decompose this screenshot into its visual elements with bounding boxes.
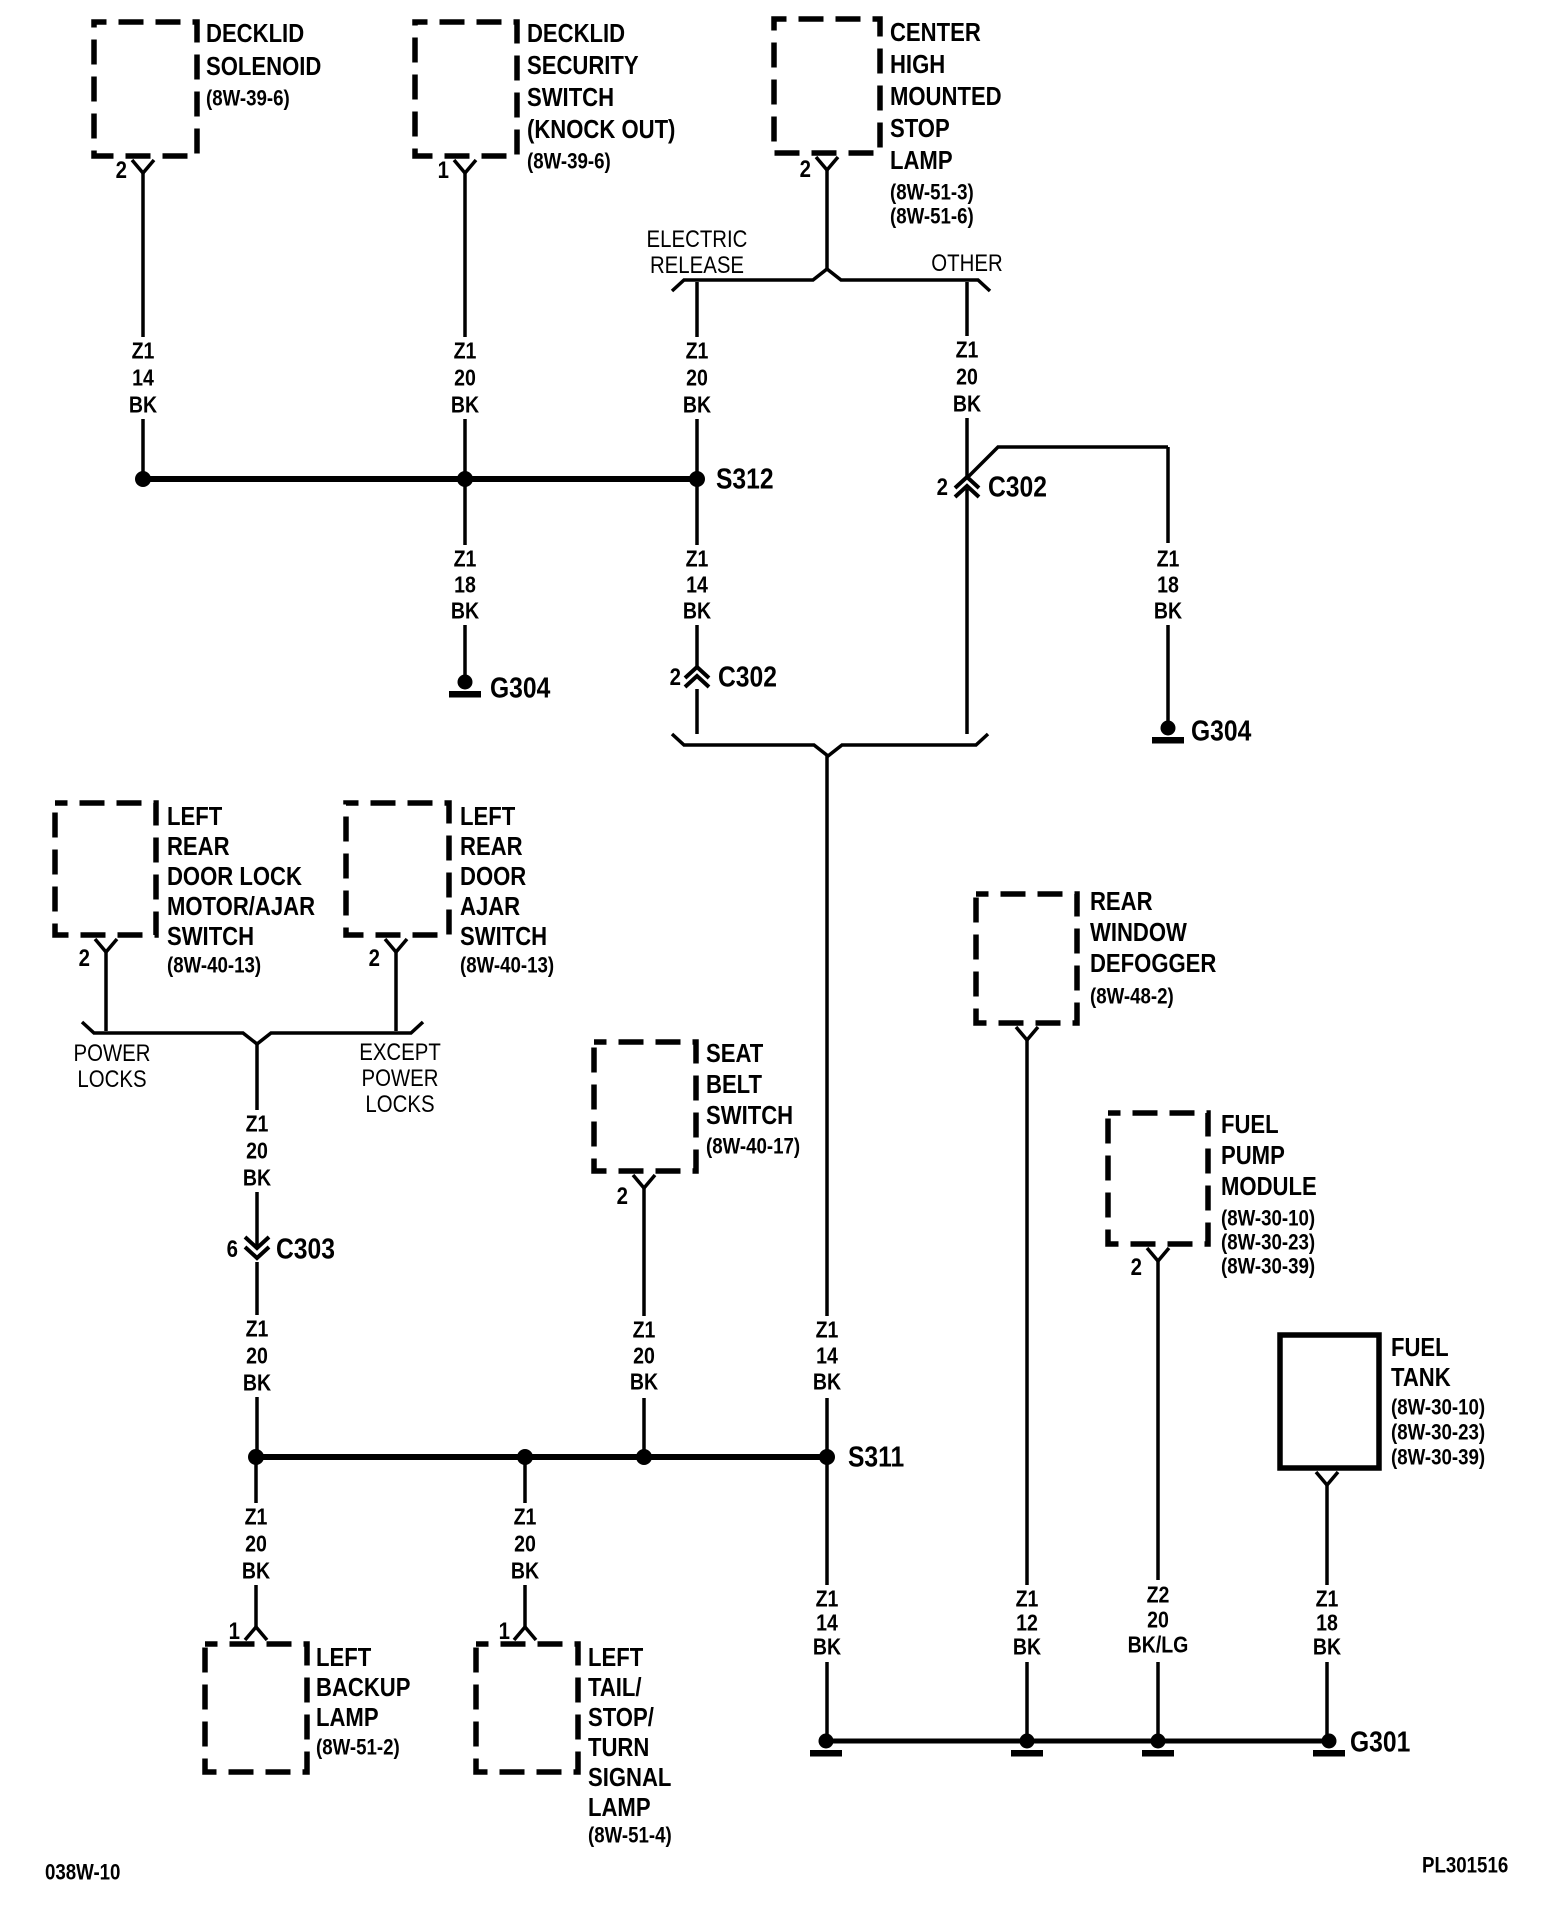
svg-text:TANK: TANK — [1391, 1363, 1451, 1392]
svg-text:(8W-51-6): (8W-51-6) — [890, 205, 974, 229]
svg-text:BK: BK — [243, 1370, 272, 1396]
svg-text:REAR: REAR — [167, 832, 230, 861]
svg-text:14: 14 — [816, 1610, 838, 1636]
svg-text:FUEL: FUEL — [1221, 1110, 1279, 1139]
svg-text:LEFT: LEFT — [167, 802, 222, 831]
svg-text:Z1: Z1 — [956, 337, 979, 363]
wire Z1 12 BK from defogger to ground bus — [1013, 1040, 1042, 1735]
wire from door ajar switch pin 2 to merge brace (EXCEPT POWER LOCKS) — [394, 952, 398, 1031]
svg-text:BK/LG: BK/LG — [1128, 1632, 1189, 1658]
wire Z1 20 BK from junction down to LEFT TAIL/STOP/TURN SIGNAL LAMP — [511, 1457, 540, 1627]
svg-text:Z1: Z1 — [246, 1111, 269, 1137]
svg-text:BK: BK — [1154, 598, 1183, 624]
wire jog from C302 upper to right branch — [967, 447, 1168, 478]
svg-text:2: 2 — [116, 157, 127, 184]
svg-text:Z1: Z1 — [816, 1317, 839, 1343]
svg-text:BK: BK — [630, 1369, 659, 1395]
svg-text:STOP/: STOP/ — [588, 1703, 654, 1732]
ground G304 (left) — [449, 672, 550, 704]
svg-text:Z2: Z2 — [1147, 1582, 1170, 1608]
svg-text:MOUNTED: MOUNTED — [890, 82, 1002, 111]
component LEFT TAIL/STOP/TURN SIGNAL LAMP (dashed box) — [476, 1643, 672, 1847]
svg-text:LEFT: LEFT — [588, 1643, 643, 1672]
svg-text:DEFOGGER: DEFOGGER — [1090, 949, 1216, 978]
svg-text:TAIL/: TAIL/ — [588, 1673, 642, 1702]
junction dot tail lamp branch — [517, 1449, 533, 1465]
svg-text:Z1: Z1 — [132, 338, 155, 364]
svg-text:038W-10: 038W-10 — [45, 1861, 120, 1885]
svg-text:LEFT: LEFT — [316, 1643, 371, 1672]
ground symbol below S311 wire — [810, 1734, 842, 1757]
svg-text:Z1: Z1 — [246, 1316, 269, 1342]
svg-text:18: 18 — [1157, 572, 1179, 598]
junction dot at DECKLID SECURITY SWITCH wire — [457, 471, 473, 487]
svg-text:14: 14 — [816, 1343, 838, 1369]
svg-text:BK: BK — [243, 1165, 272, 1191]
wire from door lock motor pin 2 to merge brace (POWER LOCKS) — [104, 952, 108, 1031]
junction dot seat belt branch — [636, 1449, 652, 1465]
component FUEL TANK (solid box) — [1280, 1333, 1485, 1469]
svg-text:DECKLID: DECKLID — [206, 19, 304, 48]
label OTHER — [931, 250, 1002, 277]
svg-text:Z1: Z1 — [686, 338, 709, 364]
svg-text:AJAR: AJAR — [460, 892, 520, 921]
svg-text:(8W-39-6): (8W-39-6) — [206, 87, 290, 111]
svg-text:Z1: Z1 — [1016, 1586, 1039, 1612]
svg-text:BK: BK — [129, 392, 158, 418]
svg-text:BACKUP: BACKUP — [316, 1673, 410, 1702]
svg-text:2: 2 — [800, 156, 811, 183]
wire Z2 20 BK/LG from fuel pump module to ground bus — [1128, 1261, 1189, 1735]
split brace ELECTRIC RELEASE / OTHER — [672, 269, 990, 291]
svg-text:BK: BK — [1013, 1634, 1042, 1660]
pin of FUEL TANK — [1316, 1472, 1338, 1485]
merge brace POWER LOCKS / EXCEPT POWER LOCKS — [82, 1022, 423, 1044]
label EXCEPT POWER LOCKS — [359, 1039, 441, 1118]
svg-text:BK: BK — [813, 1634, 842, 1660]
wire Z1 20 BK from merge brace to connector C303 — [243, 1044, 272, 1248]
footer sheet number 038W-10 — [45, 1861, 120, 1885]
wire Z1 20 BK from seat belt switch to junction row — [630, 1188, 659, 1457]
svg-text:C302: C302 — [988, 471, 1047, 503]
pin of REAR WINDOW DEFOGGER — [1016, 1027, 1038, 1040]
pin 1 of LEFT TAIL/STOP/TURN SIGNAL LAMP — [499, 1618, 536, 1645]
junction dot at DECKLID SOLENOID wire — [135, 471, 151, 487]
component LEFT BACKUP LAMP (dashed box) — [205, 1643, 410, 1772]
wire Z1 14 BK from S311 to ground bus — [813, 1457, 842, 1735]
component SEAT BELT SWITCH (dashed box) — [594, 1039, 800, 1171]
wire Z1 18 BK from fuel tank to ground G301 — [1313, 1485, 1342, 1735]
wire Z1 14 BK from S312 to connector C302 (lower) — [683, 479, 712, 667]
splice S311 — [819, 1441, 904, 1473]
svg-text:SWITCH: SWITCH — [706, 1101, 793, 1130]
connector C302 (upper, pin 2) on OTHER branch — [937, 471, 1047, 503]
svg-text:Z1: Z1 — [245, 1504, 268, 1530]
svg-text:SWITCH: SWITCH — [527, 83, 614, 112]
svg-text:(8W-30-23): (8W-30-23) — [1221, 1231, 1315, 1255]
svg-text:(KNOCK OUT): (KNOCK OUT) — [527, 115, 675, 144]
component DECKLID SECURITY SWITCH (dashed box) — [415, 19, 675, 173]
svg-text:DOOR: DOOR — [460, 862, 526, 891]
svg-text:(8W-30-23): (8W-30-23) — [1391, 1421, 1485, 1445]
svg-text:SIGNAL: SIGNAL — [588, 1763, 671, 1792]
svg-text:HIGH: HIGH — [890, 50, 945, 79]
svg-text:20: 20 — [245, 1531, 267, 1557]
pin 1 of LEFT BACKUP LAMP — [229, 1618, 267, 1645]
svg-text:1: 1 — [229, 1618, 240, 1645]
svg-text:SECURITY: SECURITY — [527, 51, 639, 80]
svg-text:REAR: REAR — [1090, 887, 1153, 916]
svg-text:SOLENOID: SOLENOID — [206, 52, 321, 81]
svg-text:MOTOR/AJAR: MOTOR/AJAR — [167, 892, 315, 921]
pin 2 of FUEL PUMP MODULE — [1131, 1248, 1169, 1280]
svg-text:BK: BK — [242, 1558, 271, 1584]
svg-text:LEFT: LEFT — [460, 802, 515, 831]
svg-text:PL301516: PL301516 — [1422, 1854, 1508, 1878]
component CENTER HIGH MOUNTED STOP LAMP (dashed box) — [774, 18, 1002, 228]
svg-text:Z1: Z1 — [454, 546, 477, 572]
svg-text:BK: BK — [683, 598, 712, 624]
svg-text:SEAT: SEAT — [706, 1039, 764, 1068]
pin 2 of LEFT REAR DOOR AJAR SWITCH — [369, 939, 407, 971]
svg-text:20: 20 — [246, 1138, 268, 1164]
svg-text:20: 20 — [454, 365, 476, 391]
svg-text:RELEASE: RELEASE — [650, 252, 744, 279]
svg-text:2: 2 — [79, 945, 90, 972]
svg-text:BK: BK — [813, 1369, 842, 1395]
svg-text:Z1: Z1 — [1316, 1586, 1339, 1612]
svg-text:BK: BK — [683, 392, 712, 418]
splice S312 bus — [143, 476, 697, 482]
svg-text:2: 2 — [617, 1183, 628, 1210]
pin 2 of LEFT REAR DOOR LOCK MOTOR/AJAR SWITCH — [79, 939, 117, 971]
svg-text:(8W-51-2): (8W-51-2) — [316, 1736, 400, 1760]
component LEFT REAR DOOR LOCK MOTOR/AJAR SWITCH (dashed box) — [55, 802, 315, 977]
svg-text:ELECTRIC: ELECTRIC — [647, 226, 748, 253]
wire Z1 20 BK (ELECTRIC RELEASE branch) to splice S312 — [683, 282, 712, 479]
svg-text:18: 18 — [1316, 1610, 1338, 1636]
component DECKLID SOLENOID (dashed box) — [94, 19, 321, 156]
svg-text:BK: BK — [511, 1558, 540, 1584]
svg-text:14: 14 — [132, 365, 154, 391]
svg-text:BK: BK — [953, 391, 982, 417]
junction dot backup lamp branch — [248, 1449, 264, 1465]
wire Z1 20 BK from C303 to junction row — [243, 1262, 272, 1457]
pin 2 of DECKLID SOLENOID — [116, 157, 154, 184]
svg-text:20: 20 — [633, 1343, 655, 1369]
wire Z1 14 BK trunk from merge brace to splice S311 — [813, 756, 842, 1457]
svg-text:BK: BK — [451, 392, 480, 418]
svg-text:LAMP: LAMP — [588, 1793, 651, 1822]
svg-text:Z1: Z1 — [633, 1317, 656, 1343]
svg-text:2: 2 — [369, 945, 380, 972]
svg-text:1: 1 — [438, 157, 449, 184]
svg-text:POWER: POWER — [73, 1040, 150, 1067]
svg-text:PUMP: PUMP — [1221, 1141, 1285, 1170]
svg-text:S312: S312 — [716, 463, 774, 495]
svg-text:12: 12 — [1016, 1610, 1038, 1636]
svg-text:BK: BK — [1313, 1634, 1342, 1660]
svg-text:Z1: Z1 — [686, 546, 709, 572]
svg-text:G301: G301 — [1350, 1726, 1410, 1758]
svg-text:Z1: Z1 — [1157, 546, 1180, 572]
svg-text:LOCKS: LOCKS — [77, 1066, 146, 1093]
svg-text:(8W-30-10): (8W-30-10) — [1391, 1396, 1485, 1420]
svg-text:20: 20 — [956, 364, 978, 390]
svg-text:6: 6 — [227, 1236, 238, 1263]
merge brace joining ELECTRIC RELEASE and OTHER branches — [672, 734, 988, 756]
svg-text:STOP: STOP — [890, 114, 950, 143]
svg-text:(8W-40-13): (8W-40-13) — [167, 954, 261, 978]
connector C302 (lower, pin 2) — [670, 661, 777, 693]
svg-text:DECKLID: DECKLID — [527, 19, 625, 48]
ground G304 (right) — [1152, 715, 1251, 747]
pin 2 of SEAT BELT SWITCH — [617, 1175, 655, 1209]
component FUEL PUMP MODULE (dashed box) — [1108, 1110, 1317, 1278]
svg-text:C302: C302 — [718, 661, 777, 693]
splice S312 — [689, 463, 774, 495]
svg-text:Z1: Z1 — [454, 338, 477, 364]
svg-text:14: 14 — [686, 572, 708, 598]
svg-text:(8W-30-39): (8W-30-39) — [1221, 1255, 1315, 1279]
svg-text:CENTER: CENTER — [890, 18, 981, 47]
svg-text:(8W-51-3): (8W-51-3) — [890, 181, 974, 205]
svg-text:18: 18 — [454, 572, 476, 598]
wire Z1 14 BK from DECKLID SOLENOID pin 2 to splice S312 — [129, 173, 158, 479]
component REAR WINDOW DEFOGGER (dashed box) — [976, 887, 1216, 1023]
svg-text:20: 20 — [686, 365, 708, 391]
connector C303 (pin 6) — [227, 1233, 335, 1265]
svg-text:2: 2 — [1131, 1254, 1142, 1281]
component LEFT REAR DOOR AJAR SWITCH (dashed box) — [346, 802, 554, 977]
svg-text:REAR: REAR — [460, 832, 523, 861]
svg-text:LAMP: LAMP — [316, 1703, 379, 1732]
svg-text:1: 1 — [499, 1618, 510, 1645]
svg-text:POWER: POWER — [361, 1065, 438, 1092]
wire from C302 (lower) to merge brace — [695, 689, 699, 734]
svg-text:G304: G304 — [490, 672, 550, 704]
svg-text:2: 2 — [670, 664, 681, 691]
svg-text:(8W-30-39): (8W-30-39) — [1391, 1446, 1485, 1470]
wire Z1 18 BK from junction to ground G304 (left) — [451, 479, 480, 676]
ground symbol below fuel pump wire — [1142, 1734, 1174, 1757]
svg-text:FUEL: FUEL — [1391, 1333, 1449, 1362]
footer code PL301516 — [1422, 1854, 1508, 1878]
svg-text:(8W-30-10): (8W-30-10) — [1221, 1207, 1315, 1231]
svg-text:Z1: Z1 — [816, 1586, 839, 1612]
svg-text:(8W-39-6): (8W-39-6) — [527, 150, 611, 174]
splice S311 bus — [256, 1454, 827, 1460]
svg-text:WINDOW: WINDOW — [1090, 918, 1187, 947]
svg-text:(8W-48-2): (8W-48-2) — [1090, 985, 1174, 1009]
svg-text:EXCEPT: EXCEPT — [359, 1039, 441, 1066]
label ELECTRIC RELEASE — [647, 226, 748, 279]
label POWER LOCKS — [73, 1040, 150, 1093]
svg-text:2: 2 — [937, 474, 948, 501]
svg-text:(8W-40-17): (8W-40-17) — [706, 1135, 800, 1159]
svg-text:BELT: BELT — [706, 1070, 762, 1099]
svg-text:(8W-51-4): (8W-51-4) — [588, 1824, 672, 1848]
wire below C302 upper down to merge brace — [965, 489, 969, 734]
ground bus to G301 — [826, 1739, 1329, 1744]
svg-text:MODULE: MODULE — [1221, 1172, 1317, 1201]
svg-text:SWITCH: SWITCH — [460, 922, 547, 951]
svg-text:20: 20 — [246, 1343, 268, 1369]
svg-text:(8W-40-13): (8W-40-13) — [460, 954, 554, 978]
svg-text:S311: S311 — [848, 1441, 904, 1473]
svg-text:C303: C303 — [276, 1233, 335, 1265]
svg-text:20: 20 — [514, 1531, 536, 1557]
ground G301 — [1313, 1726, 1410, 1758]
wire from CHMSL pin 2 down to split brace — [825, 170, 829, 270]
svg-text:Z1: Z1 — [514, 1504, 537, 1530]
pin 2 of CENTER HIGH MOUNTED STOP LAMP — [800, 156, 838, 183]
svg-text:BK: BK — [451, 598, 480, 624]
svg-text:G304: G304 — [1191, 715, 1251, 747]
svg-text:OTHER: OTHER — [931, 250, 1002, 277]
svg-text:LAMP: LAMP — [890, 146, 953, 175]
svg-text:DOOR LOCK: DOOR LOCK — [167, 862, 302, 891]
ground symbol below defogger wire — [1011, 1734, 1043, 1757]
pin 1 of DECKLID SECURITY SWITCH — [438, 157, 476, 184]
svg-text:TURN: TURN — [588, 1733, 649, 1762]
svg-text:20: 20 — [1147, 1607, 1169, 1633]
wire Z1 20 BK from DECKLID SECURITY SWITCH pin 1 to splice S312 bus — [451, 173, 480, 479]
wire Z1 20 BK (OTHER branch) to connector C302 — [953, 282, 982, 477]
wire Z1 18 BK from C302 to ground G304 (right) — [1154, 447, 1183, 722]
svg-text:LOCKS: LOCKS — [365, 1091, 434, 1118]
svg-text:SWITCH: SWITCH — [167, 922, 254, 951]
wire Z1 20 BK from junction down to LEFT BACKUP LAMP — [242, 1457, 271, 1627]
